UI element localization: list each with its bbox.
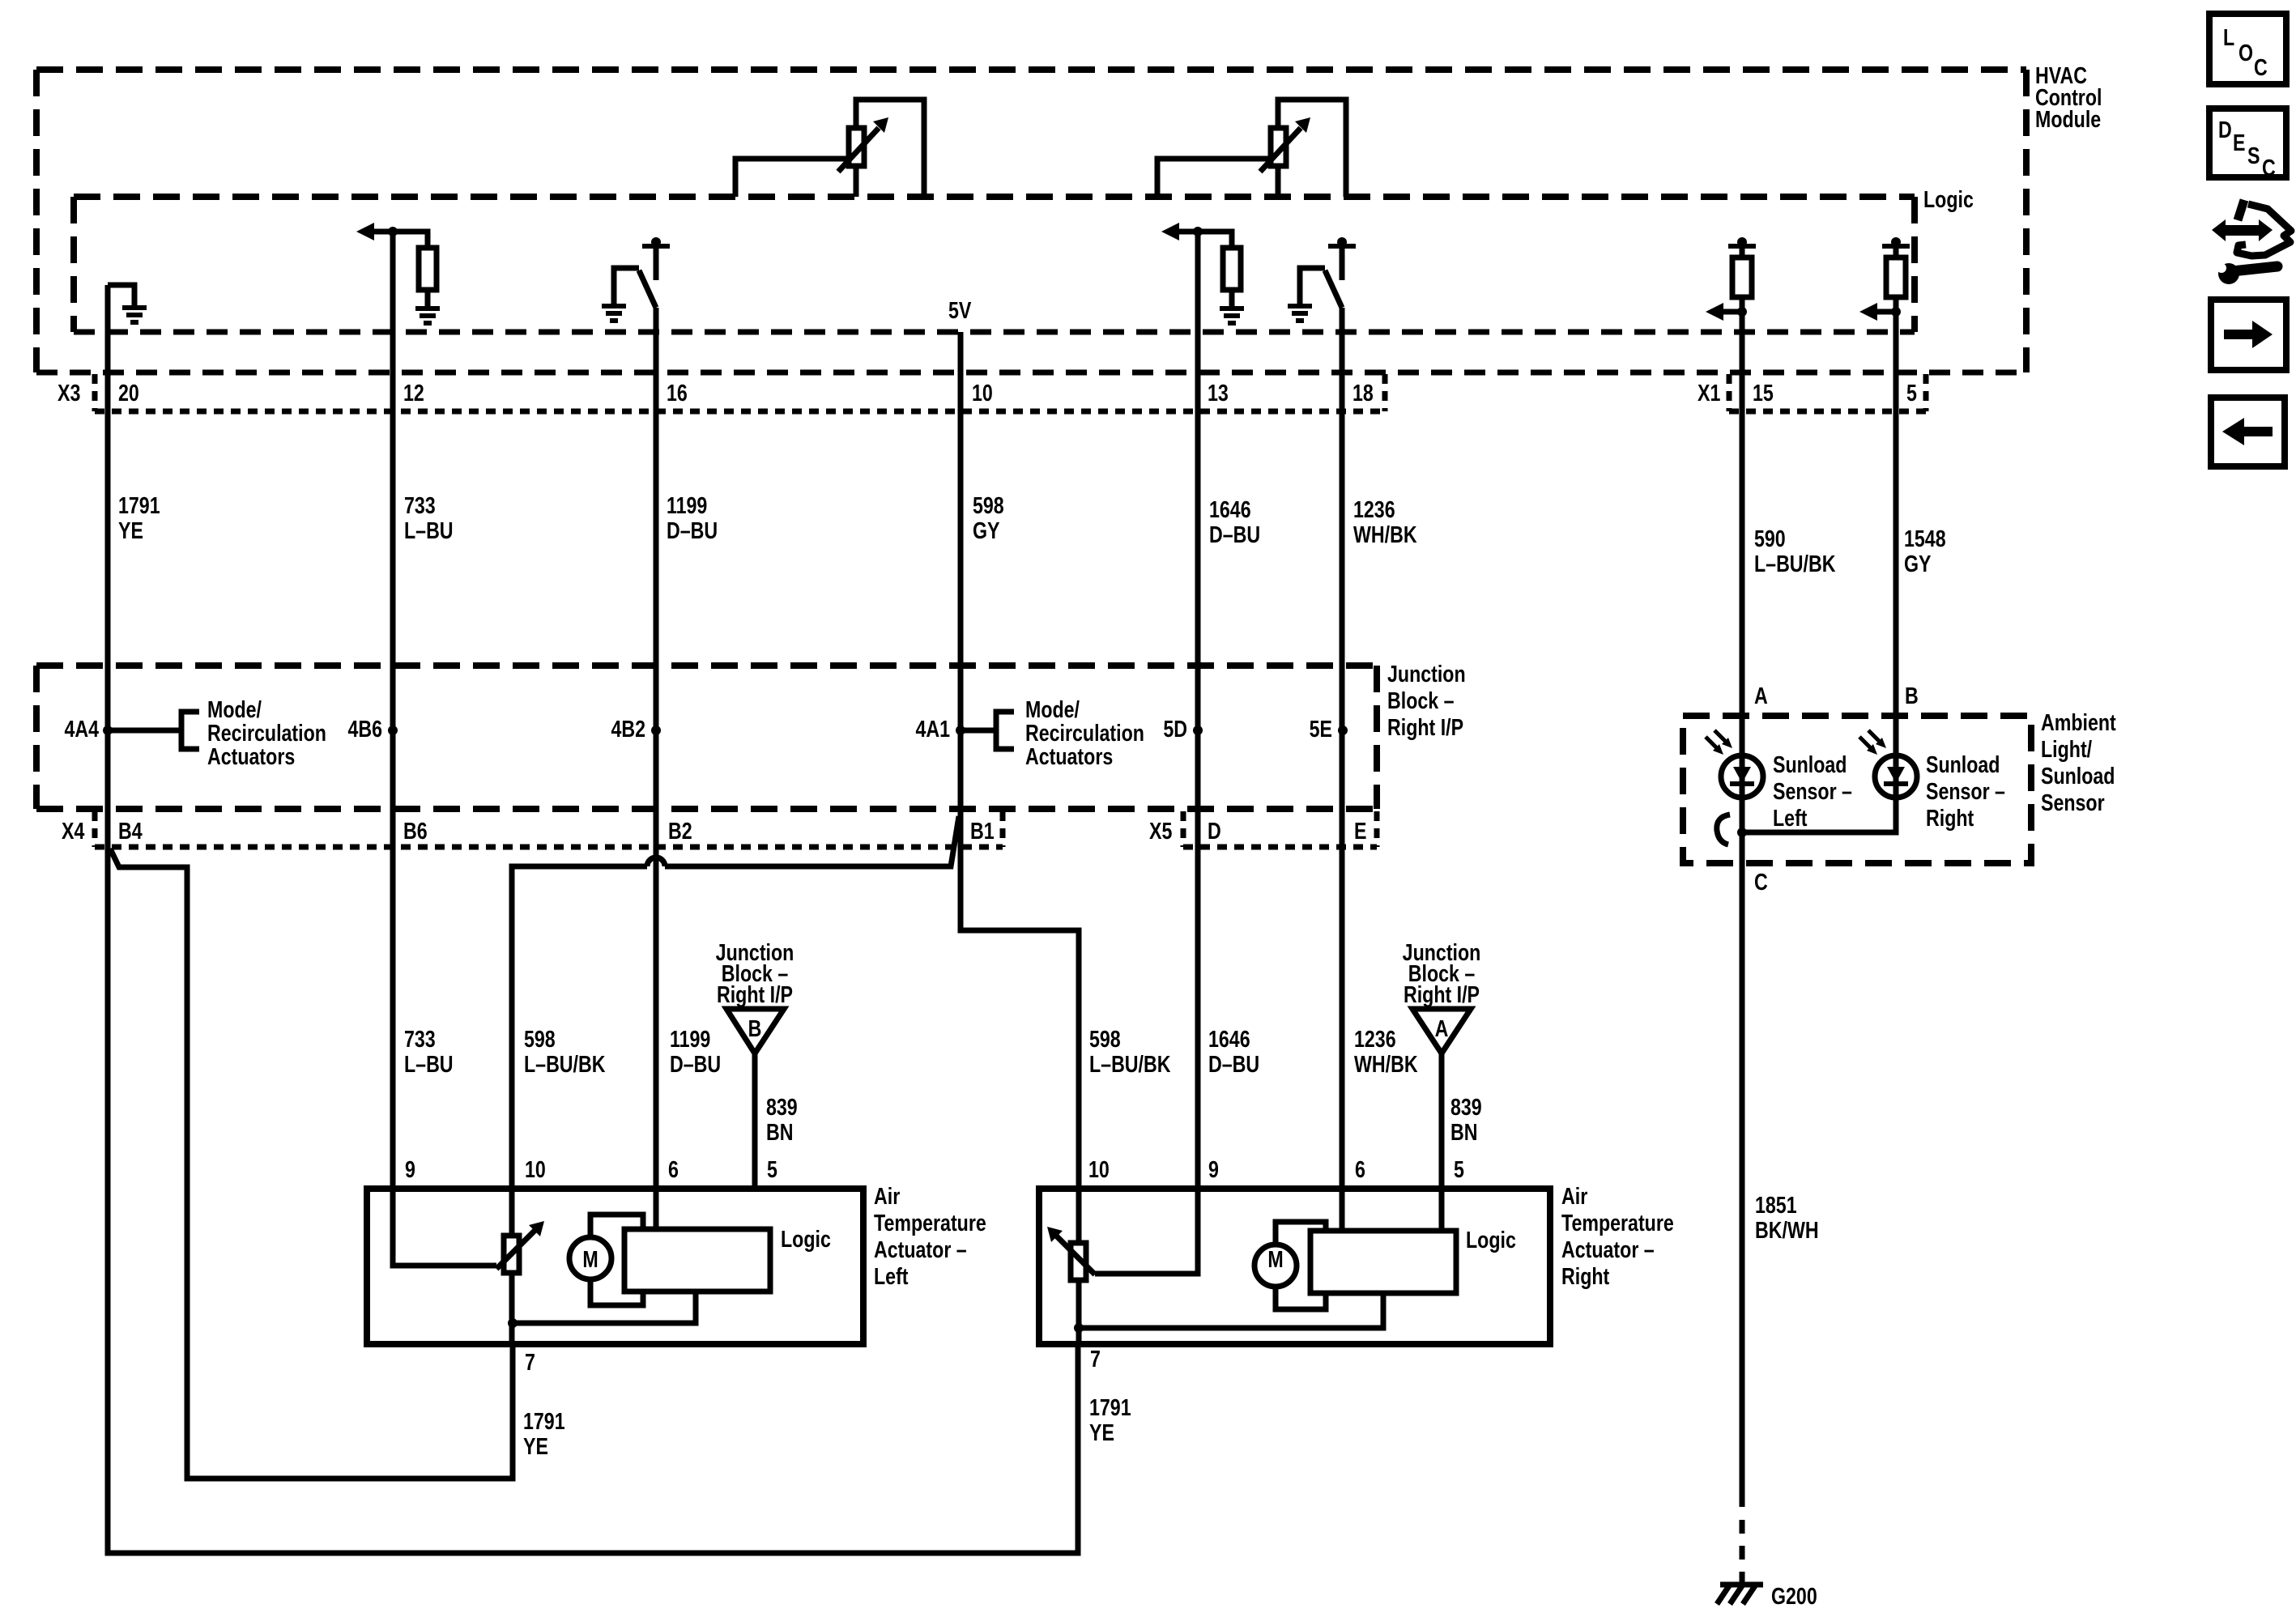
svg-text:10: 10 bbox=[972, 379, 993, 406]
svg-text:1851: 1851 bbox=[1755, 1191, 1797, 1218]
svg-text:Air: Air bbox=[874, 1182, 900, 1209]
svg-text:WH/BK: WH/BK bbox=[1353, 521, 1417, 547]
svg-text:M: M bbox=[582, 1245, 598, 1272]
svg-text:Logic: Logic bbox=[781, 1225, 831, 1252]
svg-text:Sunload: Sunload bbox=[1773, 751, 1847, 777]
svg-text:Actuator –: Actuator – bbox=[1561, 1236, 1655, 1262]
svg-text:B4: B4 bbox=[118, 817, 143, 844]
svg-text:1646: 1646 bbox=[1208, 1025, 1250, 1052]
svg-text:Actuator –: Actuator – bbox=[874, 1236, 967, 1262]
svg-text:6: 6 bbox=[1355, 1155, 1365, 1182]
svg-text:O: O bbox=[2238, 39, 2253, 66]
svg-text:B2: B2 bbox=[668, 817, 692, 844]
svg-text:Actuators: Actuators bbox=[207, 743, 295, 769]
svg-text:Ambient: Ambient bbox=[2041, 709, 2116, 735]
svg-text:Junction: Junction bbox=[1387, 660, 1466, 687]
svg-text:Left: Left bbox=[1773, 804, 1808, 831]
svg-text:YE: YE bbox=[1089, 1419, 1114, 1445]
svg-text:20: 20 bbox=[118, 379, 139, 406]
svg-text:Sunload: Sunload bbox=[1926, 751, 2000, 777]
svg-text:Right: Right bbox=[1561, 1262, 1609, 1289]
svg-text:Right I/P: Right I/P bbox=[1387, 713, 1463, 740]
svg-text:Air: Air bbox=[1561, 1182, 1587, 1209]
svg-text:Actuators: Actuators bbox=[1025, 743, 1113, 769]
svg-text:6: 6 bbox=[668, 1155, 679, 1182]
svg-text:L–BU/BK: L–BU/BK bbox=[1089, 1050, 1171, 1077]
svg-text:D–BU: D–BU bbox=[670, 1050, 721, 1077]
svg-text:Light/: Light/ bbox=[2041, 735, 2093, 762]
svg-text:B: B bbox=[1905, 682, 1919, 709]
svg-text:BN: BN bbox=[766, 1118, 794, 1145]
svg-text:733: 733 bbox=[404, 491, 436, 518]
svg-text:10: 10 bbox=[1088, 1155, 1110, 1182]
svg-text:Temperature: Temperature bbox=[1561, 1209, 1674, 1236]
svg-text:598: 598 bbox=[973, 491, 1004, 518]
svg-text:Right: Right bbox=[1926, 804, 1974, 831]
svg-text:D–BU: D–BU bbox=[1208, 1050, 1259, 1077]
svg-text:839: 839 bbox=[1450, 1093, 1482, 1120]
svg-text:5: 5 bbox=[1454, 1155, 1464, 1182]
svg-text:L–BU/BK: L–BU/BK bbox=[1754, 550, 1836, 577]
svg-text:1199: 1199 bbox=[667, 491, 707, 518]
svg-text:Sensor: Sensor bbox=[2041, 789, 2105, 815]
svg-text:D: D bbox=[1208, 817, 1221, 844]
svg-text:E: E bbox=[2233, 129, 2245, 155]
svg-text:598: 598 bbox=[1089, 1025, 1121, 1052]
svg-text:GY: GY bbox=[973, 517, 1000, 543]
svg-text:GY: GY bbox=[1904, 550, 1932, 577]
svg-text:S: S bbox=[2247, 142, 2260, 168]
svg-text:7: 7 bbox=[1090, 1345, 1101, 1372]
svg-text:1791: 1791 bbox=[118, 491, 160, 518]
svg-text:X3: X3 bbox=[58, 379, 80, 406]
svg-text:A: A bbox=[1754, 682, 1768, 709]
svg-text:D–BU: D–BU bbox=[1209, 521, 1260, 547]
svg-text:5V: 5V bbox=[948, 296, 972, 323]
svg-text:7: 7 bbox=[525, 1348, 535, 1375]
svg-text:590: 590 bbox=[1754, 525, 1786, 551]
svg-text:Sunload: Sunload bbox=[2041, 762, 2115, 789]
svg-text:4A1: 4A1 bbox=[915, 715, 950, 742]
svg-text:Sensor –: Sensor – bbox=[1773, 777, 1852, 804]
svg-text:YE: YE bbox=[523, 1432, 548, 1459]
svg-text:YE: YE bbox=[118, 517, 143, 543]
svg-text:C: C bbox=[1754, 868, 1768, 895]
svg-text:Module: Module bbox=[2035, 105, 2101, 132]
svg-text:L: L bbox=[2223, 23, 2234, 50]
svg-text:E: E bbox=[1354, 817, 1366, 844]
svg-text:9: 9 bbox=[1208, 1155, 1219, 1182]
svg-text:X4: X4 bbox=[62, 817, 85, 844]
svg-text:5E: 5E bbox=[1310, 715, 1332, 742]
svg-text:4B6: 4B6 bbox=[347, 715, 382, 742]
svg-text:10: 10 bbox=[525, 1155, 546, 1182]
svg-text:Right I/P: Right I/P bbox=[717, 981, 793, 1007]
svg-text:G200: G200 bbox=[1771, 1582, 1817, 1609]
svg-text:5D: 5D bbox=[1163, 715, 1187, 742]
svg-text:D: D bbox=[2218, 116, 2232, 143]
svg-text:1236: 1236 bbox=[1353, 496, 1395, 522]
svg-text:1199: 1199 bbox=[670, 1025, 710, 1052]
svg-text:B: B bbox=[748, 1015, 762, 1041]
svg-text:C: C bbox=[2262, 154, 2276, 181]
svg-text:1236: 1236 bbox=[1354, 1025, 1396, 1052]
svg-text:Logic: Logic bbox=[1923, 185, 1974, 212]
svg-text:1646: 1646 bbox=[1209, 496, 1251, 522]
svg-text:1548: 1548 bbox=[1904, 525, 1946, 551]
svg-text:15: 15 bbox=[1753, 379, 1774, 406]
svg-text:BN: BN bbox=[1450, 1118, 1478, 1145]
svg-text:13: 13 bbox=[1208, 379, 1229, 406]
svg-text:L–BU/BK: L–BU/BK bbox=[524, 1050, 606, 1077]
svg-text:Temperature: Temperature bbox=[874, 1209, 986, 1236]
svg-text:4B2: 4B2 bbox=[611, 715, 645, 742]
svg-text:Logic: Logic bbox=[1466, 1226, 1516, 1253]
svg-text:Right I/P: Right I/P bbox=[1404, 981, 1480, 1007]
svg-text:C: C bbox=[2254, 53, 2268, 80]
svg-text:733: 733 bbox=[404, 1025, 436, 1052]
svg-text:1791: 1791 bbox=[1089, 1394, 1131, 1420]
svg-text:B6: B6 bbox=[403, 817, 428, 844]
svg-text:A: A bbox=[1435, 1015, 1449, 1041]
svg-text:839: 839 bbox=[766, 1093, 798, 1120]
svg-text:L–BU: L–BU bbox=[404, 1050, 454, 1077]
svg-text:L–BU: L–BU bbox=[404, 517, 454, 543]
svg-text:X1: X1 bbox=[1698, 379, 1720, 406]
svg-text:Block –: Block – bbox=[1387, 687, 1454, 713]
svg-text:16: 16 bbox=[667, 379, 688, 406]
svg-text:4A4: 4A4 bbox=[64, 715, 99, 742]
svg-text:5: 5 bbox=[1906, 379, 1917, 406]
svg-text:BK/WH: BK/WH bbox=[1755, 1216, 1819, 1243]
svg-text:598: 598 bbox=[524, 1025, 556, 1052]
svg-text:B1: B1 bbox=[970, 817, 995, 844]
svg-text:Left: Left bbox=[874, 1262, 909, 1289]
svg-text:X5: X5 bbox=[1149, 817, 1172, 844]
svg-text:D–BU: D–BU bbox=[667, 517, 718, 543]
svg-text:M: M bbox=[1267, 1245, 1283, 1272]
svg-text:12: 12 bbox=[403, 379, 424, 406]
svg-text:WH/BK: WH/BK bbox=[1354, 1050, 1418, 1077]
svg-text:18: 18 bbox=[1352, 379, 1374, 406]
svg-text:9: 9 bbox=[405, 1155, 415, 1182]
svg-text:Sensor –: Sensor – bbox=[1926, 777, 2005, 804]
svg-text:5: 5 bbox=[767, 1155, 777, 1182]
svg-text:1791: 1791 bbox=[523, 1407, 565, 1434]
